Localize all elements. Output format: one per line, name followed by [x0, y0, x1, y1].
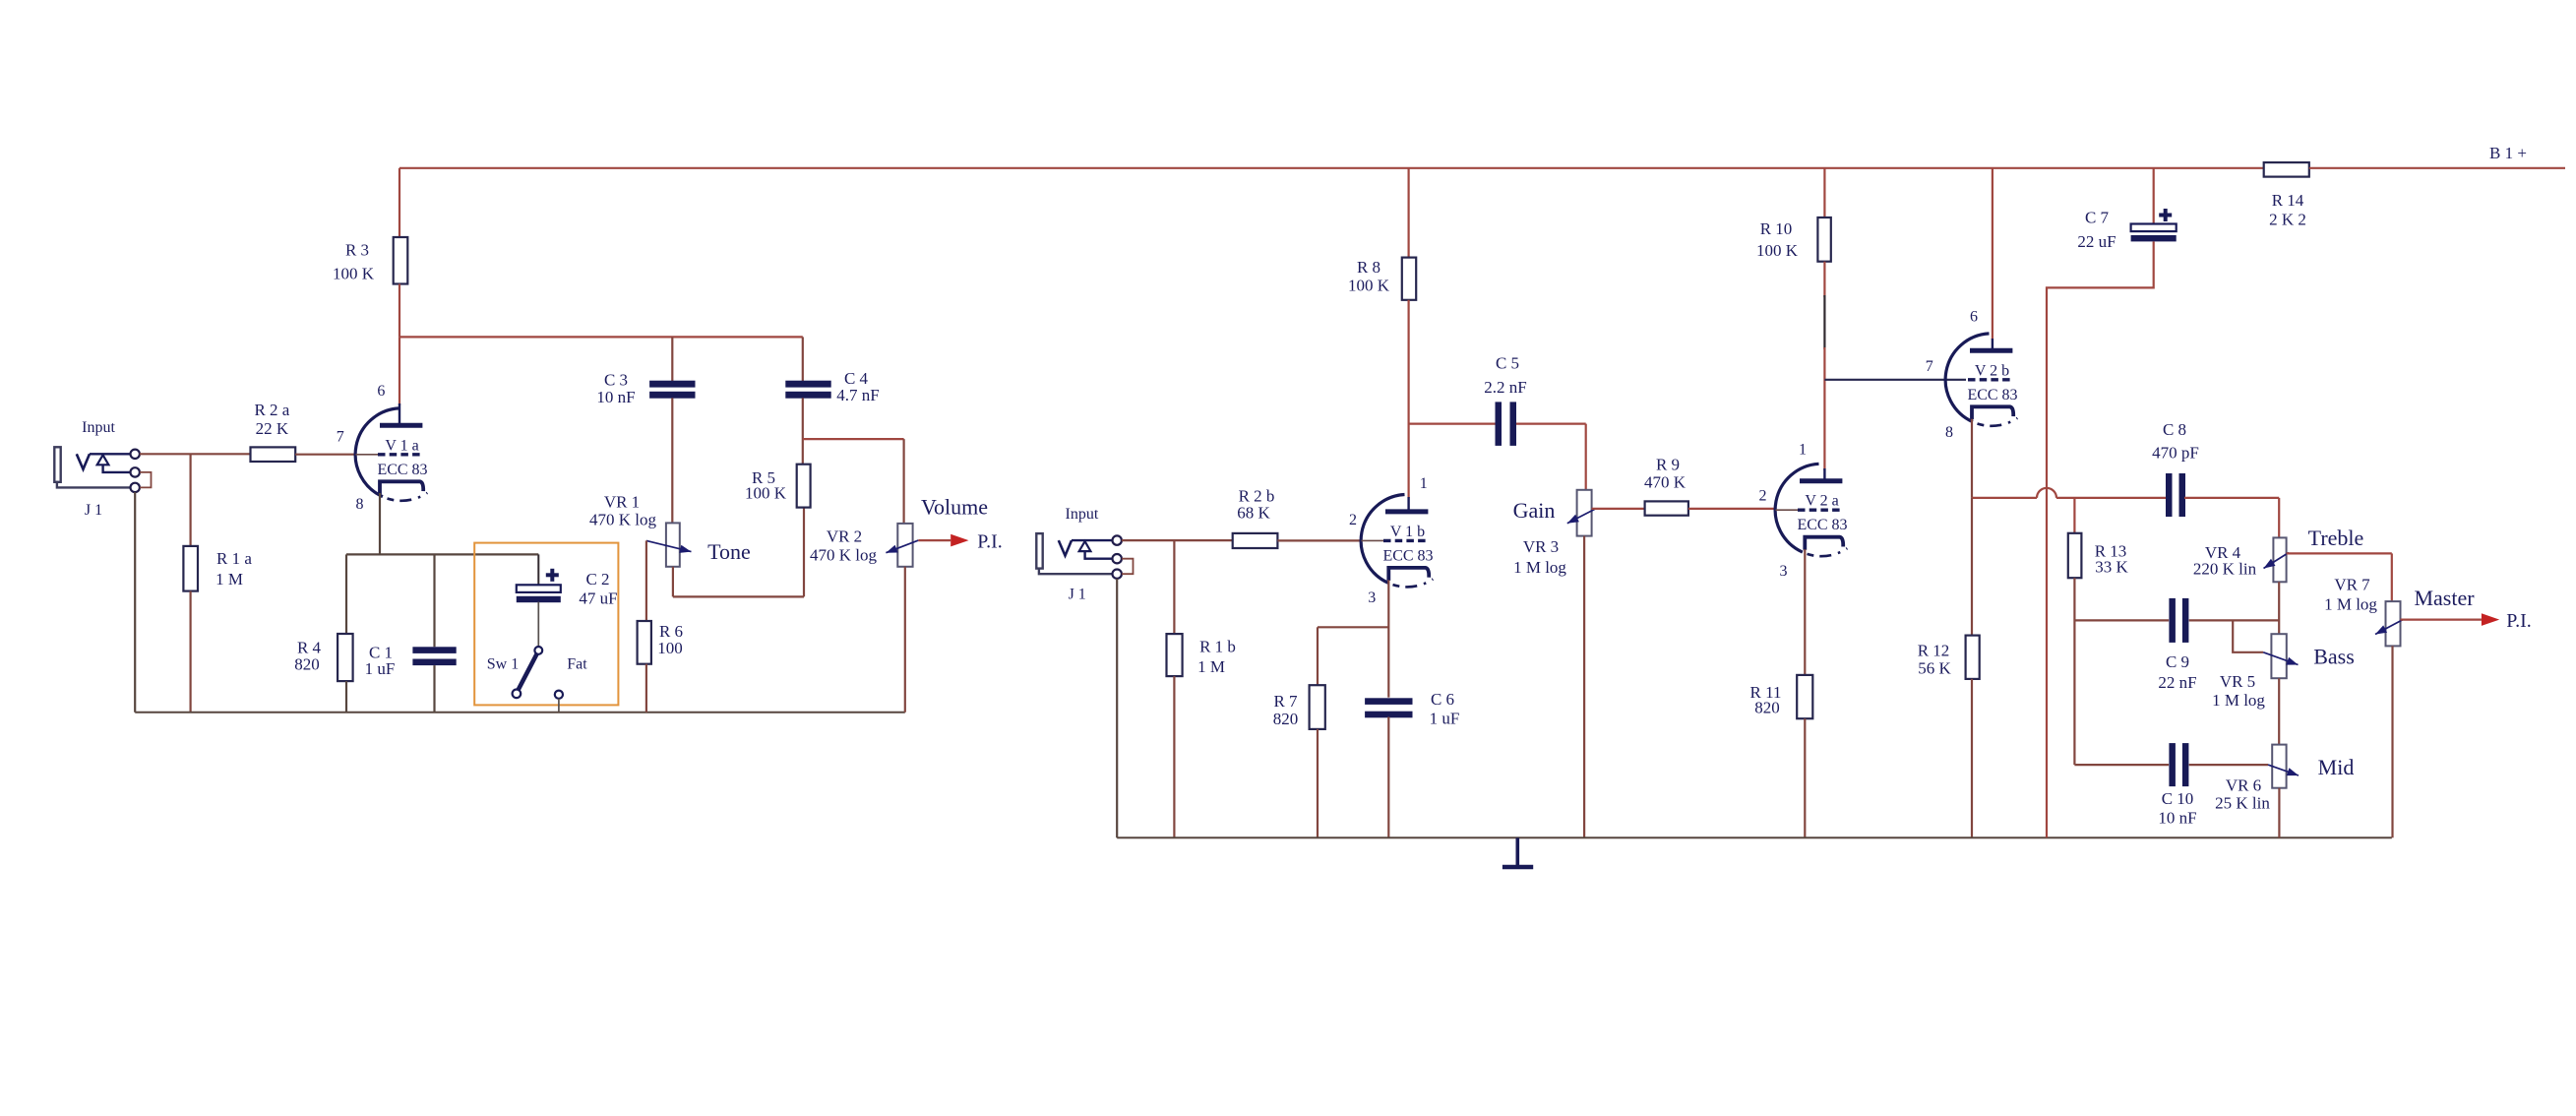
wire VR4 bottom to VR5 top [2278, 582, 2280, 634]
svg-text:25 K lin: 25 K lin [2215, 794, 2270, 813]
wire plate lead V2a [1823, 468, 1825, 481]
capacitor C8 [2152, 420, 2199, 517]
svg-text:C 8: C 8 [2163, 420, 2186, 439]
wire C10 line left [2074, 764, 2169, 766]
svg-text:1: 1 [1799, 441, 1807, 458]
svg-text:Bass: Bass [2313, 644, 2355, 668]
svg-text:R 1 a: R 1 a [216, 549, 252, 568]
svg-text:1 M: 1 M [215, 570, 243, 589]
svg-text:100 K: 100 K [745, 484, 787, 503]
wire R11 bottom to ground rail [1804, 718, 1806, 837]
svg-text:100 K: 100 K [333, 265, 375, 283]
wire C8 right to VR4 [2184, 497, 2279, 499]
wire plate lead V1b [1407, 497, 1409, 510]
wire R2b to V1b grid [1277, 539, 1362, 541]
svg-text:100 K: 100 K [1756, 241, 1799, 260]
wire R7 bottom to ground rail [1317, 729, 1319, 837]
svg-text:ECC 83: ECC 83 [1967, 387, 2017, 403]
svg-text:2.2 nF: 2.2 nF [1484, 378, 1526, 397]
svg-text:C 6: C 6 [1431, 690, 1454, 709]
svg-text:22 K: 22 K [256, 419, 289, 438]
wire C7 to ground drop [2047, 241, 2154, 837]
svg-text:100: 100 [657, 639, 683, 657]
svg-text:ECC 83: ECC 83 [377, 462, 427, 478]
ground symbol [1503, 837, 1533, 867]
svg-text:R 2 a: R 2 a [254, 401, 289, 419]
svg-text:Mid: Mid [2318, 755, 2355, 779]
wire R2a to V1a grid [295, 454, 356, 456]
svg-text:J 1: J 1 [85, 502, 102, 519]
wire C3 to VR1 [671, 398, 673, 523]
wire down to R1a [190, 454, 192, 546]
svg-text:R 8: R 8 [1357, 258, 1380, 277]
input jack J1 (left) [54, 419, 151, 519]
svg-text:220 K lin: 220 K lin [2193, 560, 2257, 579]
resistor R3 [333, 237, 407, 284]
svg-text:V 1 b: V 1 b [1390, 524, 1425, 540]
wire jack tip to R2a [140, 453, 251, 455]
svg-text:4.7 nF: 4.7 nF [836, 386, 879, 404]
wire R8 bottom to plate node [1407, 300, 1409, 498]
svg-text:V 2 a: V 2 a [1805, 493, 1838, 510]
svg-text:820: 820 [1754, 699, 1780, 717]
svg-text:470 K log: 470 K log [810, 546, 878, 565]
fat switch box [474, 543, 618, 706]
wire R3 bottom to plate node [399, 284, 400, 338]
svg-text:56 K: 56 K [1918, 659, 1951, 678]
potentiometer VR4 treble [2193, 537, 2287, 582]
svg-text:22 uF: 22 uF [2077, 232, 2116, 251]
wire V1a cathode down [379, 493, 381, 554]
wire V2a cathode to R11 [1804, 549, 1806, 675]
svg-text:2: 2 [1349, 512, 1357, 528]
svg-text:1 M log: 1 M log [1513, 558, 1566, 577]
svg-text:7: 7 [337, 429, 344, 446]
wiper arrow VR2 [886, 494, 988, 552]
resistor R1a [183, 546, 252, 591]
wire VR1 bottom [672, 567, 674, 597]
wire VR1 bottom to R5 bottom [673, 595, 804, 597]
resistor R14 [2264, 162, 2309, 229]
svg-text:Master: Master [2414, 586, 2475, 610]
wire R12 top [1971, 498, 1973, 636]
ground rail left section [135, 712, 905, 713]
potentiometer VR6 mid [2215, 745, 2286, 813]
wire down to C3 [671, 337, 673, 381]
ground rail middle section [1117, 837, 2392, 838]
wire V1b cathode down [1387, 580, 1389, 697]
svg-text:10 nF: 10 nF [596, 388, 635, 406]
potentiometer VR2 volume [810, 524, 913, 567]
wiper arrow VR5 [2263, 644, 2355, 668]
svg-text:VR 1: VR 1 [604, 493, 640, 512]
svg-text:R 9: R 9 [1656, 456, 1680, 474]
wire R8 top to rail [1407, 168, 1409, 258]
svg-text:B 1 +: B 1 + [2489, 144, 2527, 162]
wire VR4 wiper to VR7 [2287, 552, 2392, 554]
wire V2b grid from R10 node [1824, 379, 1966, 381]
capacitor C6 [1365, 690, 1459, 728]
svg-text:7: 7 [1926, 358, 1933, 375]
svg-text:6: 6 [1970, 308, 1978, 325]
svg-text:VR 6: VR 6 [2226, 776, 2261, 795]
svg-text:P.I.: P.I. [977, 531, 1003, 553]
svg-text:Input: Input [1066, 506, 1099, 523]
wire B+ rail right segment [2309, 167, 2565, 169]
resistor R10 [1756, 217, 1831, 262]
switch Sw1 [487, 647, 542, 698]
wire VR1 wiper to R6 [645, 540, 647, 621]
svg-text:J 1: J 1 [1069, 586, 1086, 602]
wire R6 bottom to ground rail [645, 664, 647, 713]
wire VR2 bottom to ground rail [904, 567, 906, 713]
resistor R2b [1233, 487, 1278, 548]
wire jack sleeve down [134, 492, 136, 713]
wire R12 bottom to ground rail [1971, 679, 1973, 837]
svg-text:VR 5: VR 5 [2220, 672, 2255, 691]
resistor R5 [745, 465, 811, 508]
svg-text:C 7: C 7 [2085, 209, 2110, 227]
wire R4 bottom to ground rail [345, 681, 347, 713]
svg-text:Fat: Fat [567, 655, 587, 672]
wire C4 to R5 top [802, 398, 804, 464]
potentiometer VR5 bass [2212, 634, 2287, 710]
svg-text:Volume: Volume [921, 494, 988, 519]
input jack J1 (right) [1036, 506, 1133, 603]
wire jack tip to R2b [1122, 539, 1233, 541]
capacitor C5 [1484, 354, 1526, 446]
wire R5 bottom riser [803, 508, 805, 597]
triode V1b [1349, 475, 1434, 606]
svg-text:V 1 a: V 1 a [385, 437, 418, 454]
svg-text:8: 8 [1945, 424, 1953, 441]
wire into C2 [537, 554, 539, 585]
svg-text:2: 2 [1759, 487, 1767, 504]
arrow to PI (right) [2482, 610, 2532, 632]
wire C1 bottom to ground rail [433, 665, 435, 713]
svg-text:Treble: Treble [2308, 526, 2364, 550]
wire VR7 wiper to PI [2401, 618, 2482, 620]
svg-text:P.I.: P.I. [2506, 610, 2532, 632]
wire R13 bottom down [2073, 578, 2075, 765]
wire C7 top to rail [2153, 168, 2155, 224]
wire R1a bottom to ground rail [190, 591, 192, 713]
wire V2b plate to rail [1992, 168, 1993, 340]
resistor R7 [1273, 685, 1325, 729]
wire plate lead V1a [399, 337, 400, 405]
wiper arrow VR3 [1513, 498, 1595, 524]
resistor R6 [638, 621, 683, 664]
potentiometer VR7 master [2324, 576, 2400, 647]
wire down to R4 [345, 554, 347, 634]
svg-text:820: 820 [294, 655, 320, 674]
svg-text:ECC 83: ECC 83 [1797, 517, 1847, 533]
svg-text:68 K: 68 K [1237, 504, 1270, 523]
svg-text:R 14: R 14 [2272, 191, 2304, 210]
arrow to PI (left) [951, 531, 1003, 553]
wire C10 right to VR6 wiper [2189, 764, 2268, 766]
resistor R2a [251, 401, 296, 462]
svg-text:R 10: R 10 [1760, 219, 1793, 238]
svg-text:Input: Input [82, 419, 115, 436]
svg-text:6: 6 [377, 383, 385, 400]
potentiometer VR3 gain [1513, 490, 1592, 577]
svg-text:820: 820 [1273, 710, 1299, 728]
triode V2a [1759, 441, 1848, 580]
wire down to C1 [433, 554, 435, 647]
wire C4 node to VR2 [803, 438, 904, 440]
wire VR7 bottom to ground rail [2391, 646, 2393, 837]
svg-text:C 5: C 5 [1496, 354, 1519, 373]
wire C9 line left [2074, 619, 2169, 621]
resistor R9 [1644, 456, 1688, 516]
wire C5 to VR3 [1516, 423, 1586, 425]
wire C2 to switch [537, 602, 539, 648]
potentiometer VR1 tone [589, 493, 680, 567]
capacitor C2 [517, 569, 618, 608]
svg-text:C 9: C 9 [2166, 652, 2189, 671]
capacitor C4 [785, 369, 879, 404]
svg-text:2 K 2: 2 K 2 [2269, 211, 2306, 229]
svg-text:V 2 b: V 2 b [1975, 362, 2009, 379]
svg-text:47 uF: 47 uF [579, 589, 617, 608]
resistor R4 [294, 634, 352, 681]
wire VR2 top lead [902, 439, 904, 524]
wire C6 bottom to ground rail [1387, 717, 1389, 838]
svg-text:3: 3 [1368, 589, 1376, 606]
svg-text:R 12: R 12 [1918, 642, 1950, 660]
wire VR6 bottom to ground rail [2278, 788, 2280, 838]
svg-text:22 nF: 22 nF [2158, 673, 2196, 692]
svg-text:470 K log: 470 K log [589, 511, 657, 529]
svg-text:Gain: Gain [1513, 498, 1556, 523]
capacitor C1 [365, 644, 457, 679]
svg-text:1 uF: 1 uF [365, 659, 396, 678]
svg-text:100 K: 100 K [1348, 277, 1390, 295]
wire R3 top to rail [399, 168, 400, 237]
svg-text:1 M log: 1 M log [2212, 691, 2265, 710]
svg-text:VR 7: VR 7 [2334, 576, 2370, 594]
fat contact [555, 655, 587, 699]
wire VR3 wiper to R9 [1592, 508, 1645, 510]
triode V2b [1926, 308, 2018, 441]
wire V2b cathode down [1971, 419, 1973, 498]
svg-text:1: 1 [1420, 475, 1428, 492]
wire down to R1b [1173, 540, 1175, 634]
svg-text:1 M log: 1 M log [2324, 595, 2377, 614]
wire VR2 wiper to PI [918, 539, 951, 541]
wire fat contact to ground rail [558, 699, 560, 713]
wire signal to R13 and C8 [2073, 498, 2075, 533]
capacitor C7 [2077, 209, 2176, 252]
wire C9 jog to VR5 wiper [2233, 620, 2263, 651]
svg-text:C 2: C 2 [585, 570, 609, 589]
wire cathode node horizontal [346, 553, 538, 555]
wire C9 right to VR5 vertical [2189, 619, 2280, 621]
svg-text:3: 3 [1780, 563, 1788, 580]
svg-text:1 M: 1 M [1197, 657, 1225, 676]
svg-text:Sw 1: Sw 1 [487, 655, 519, 672]
wire cathode to R7 [1318, 626, 1388, 628]
wiper arrow VR7 [2375, 586, 2475, 635]
wire R10 bottom to V2a plate [1823, 262, 1825, 297]
wire cathode output with hop [1972, 497, 2037, 499]
wire C5 branch [1409, 423, 1496, 425]
triode V1a [337, 383, 428, 513]
resistor R13 [2068, 533, 2129, 578]
svg-text:33 K: 33 K [2095, 558, 2128, 577]
wire R9 to V2a grid [1688, 508, 1776, 510]
wire down to C4 [802, 337, 804, 381]
resistor R12 [1918, 636, 1980, 679]
svg-text:C 3: C 3 [604, 371, 628, 390]
resistor R8 [1348, 258, 1416, 300]
wire plate node horizontal [399, 336, 803, 338]
svg-text:8: 8 [356, 496, 364, 513]
resistor R1b [1167, 634, 1236, 676]
wiper arrow VR4 [2264, 526, 2364, 569]
svg-text:R 1 b: R 1 b [1199, 638, 1236, 656]
wire VR3 bottom to ground rail [1583, 536, 1585, 838]
svg-text:1 uF: 1 uF [1430, 710, 1460, 728]
svg-text:Tone: Tone [707, 539, 751, 564]
wire R1b bottom to ground rail [1173, 676, 1175, 837]
wire VR5 bottom to VR6 top [2278, 678, 2280, 744]
svg-text:VR 2: VR 2 [827, 527, 862, 546]
wiper arrow VR1 [646, 539, 751, 564]
capacitor C9 [2158, 598, 2196, 692]
svg-text:R 7: R 7 [1273, 692, 1298, 711]
svg-text:ECC 83: ECC 83 [1382, 547, 1433, 564]
svg-text:470 K: 470 K [1644, 473, 1687, 492]
capacitor C10 [2158, 743, 2196, 828]
resistor R11 [1750, 675, 1813, 718]
wire jack sleeve down (right) [1116, 579, 1118, 837]
capacitor C3 [596, 371, 695, 407]
svg-text:R 3: R 3 [345, 241, 369, 260]
svg-text:C 10: C 10 [2162, 789, 2194, 808]
svg-text:470 pF: 470 pF [2152, 444, 2199, 463]
wire R10 top to rail [1823, 168, 1825, 217]
wiper arrow VR6 [2268, 755, 2354, 779]
svg-text:10 nF: 10 nF [2158, 809, 2196, 828]
wire B+ rail left segment [399, 167, 2264, 169]
svg-text:VR 3: VR 3 [1523, 537, 1559, 556]
